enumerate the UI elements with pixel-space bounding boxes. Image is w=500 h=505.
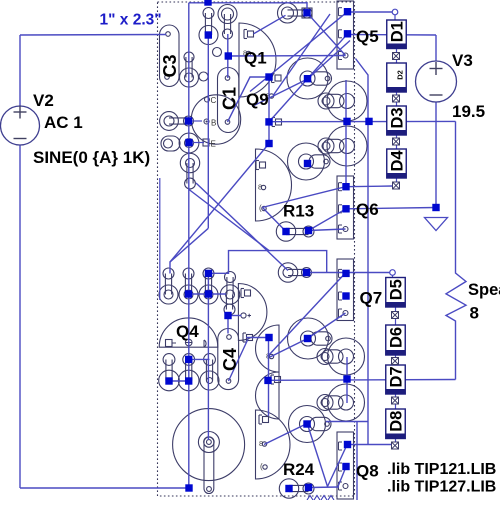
svg-text:V3: V3 [452,51,473,70]
svg-text:D6: D6 [388,327,406,348]
svg-text:D2: D2 [396,70,405,80]
svg-text:Q5: Q5 [356,27,379,46]
svg-text:D5: D5 [388,279,406,300]
svg-text:AC 1: AC 1 [44,113,83,132]
svg-text:C4: C4 [220,348,240,371]
svg-text:R13: R13 [283,202,314,221]
svg-text:C: C [211,96,217,105]
svg-text:E: E [211,140,216,149]
svg-text:D1: D1 [389,21,407,42]
svg-text:D7: D7 [388,366,406,387]
svg-text:19.5: 19.5 [452,102,485,121]
svg-text:R24: R24 [283,460,315,479]
svg-text:C3: C3 [160,54,180,77]
svg-text:.lib TIP121.LIB: .lib TIP121.LIB [387,461,496,478]
svg-text:D8: D8 [388,411,406,432]
svg-text:C1: C1 [220,87,240,110]
svg-text:D3: D3 [389,107,407,128]
svg-text:Speaker: Speaker [468,281,500,299]
svg-text:8: 8 [470,304,479,323]
svg-text:Q1: Q1 [244,49,267,68]
svg-text:SINE(0 {A} 1K): SINE(0 {A} 1K) [33,148,150,167]
svg-text:Q6: Q6 [356,200,379,219]
svg-text:1" x 2.3": 1" x 2.3" [100,12,162,29]
svg-text:V2: V2 [33,91,54,110]
svg-text:Q7: Q7 [360,289,383,308]
svg-text:Q9: Q9 [246,90,269,109]
svg-text:.lib TIP127.LIB: .lib TIP127.LIB [387,479,496,496]
svg-text:Q8: Q8 [356,462,379,481]
svg-text:D4: D4 [389,150,407,172]
svg-text:B: B [211,119,216,128]
svg-text:Q4: Q4 [176,322,199,341]
